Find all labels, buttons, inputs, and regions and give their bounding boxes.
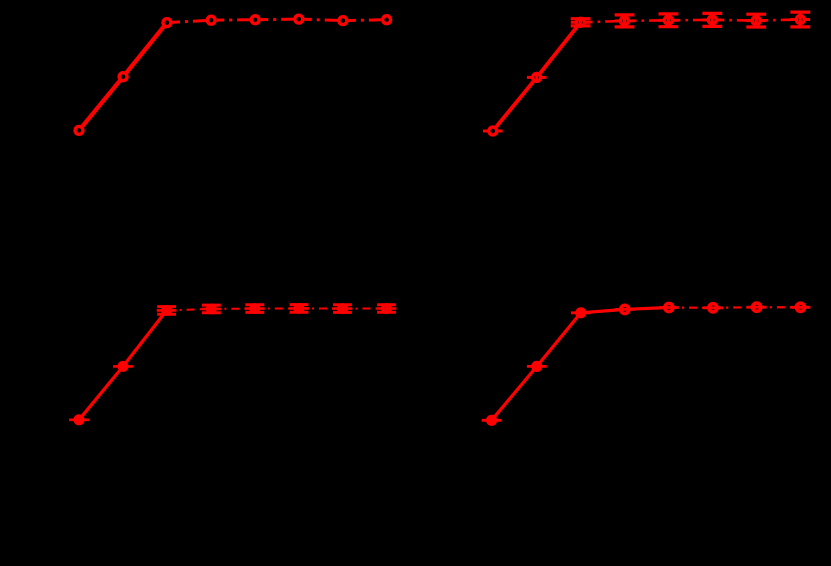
node BR-P2: filled circle marker	[531, 361, 542, 372]
TR-P6 x-error bar	[703, 18, 709, 21]
TR-P3 x-error bar	[571, 21, 577, 24]
wire: BR rising solid line P1-P5	[492, 308, 669, 421]
node BR-P6: open circle marker	[707, 302, 719, 314]
BR-P6 x-error bar	[703, 306, 723, 309]
top-right subplot: red series, open circles, x and y error bars with caps	[483, 12, 810, 137]
node TL-P6: open circle marker	[293, 14, 304, 25]
BL-P8 x-error bar	[377, 307, 397, 310]
bottom-right subplot: red series, x error bars only	[482, 301, 811, 425]
node TR-P4: open circle marker	[619, 15, 630, 26]
BL-P1 x-error bar	[69, 418, 89, 421]
node TR-P8: open circle marker	[795, 14, 806, 25]
BL-P7 x-error bar	[333, 307, 353, 310]
node BR-P1: filled circle marker	[486, 415, 497, 426]
BL-P6 x-error bar	[289, 307, 309, 310]
TR-P7 y-error bar with caps	[755, 14, 758, 27]
node TL-P4: open circle marker	[206, 15, 217, 26]
BR-P2 x-error bar	[527, 365, 547, 368]
node BL-P2: filled circle marker	[118, 361, 129, 372]
node TL-P8: open circle marker	[381, 14, 392, 25]
BL-P7 y-error bar with caps	[341, 305, 344, 313]
node BR-P8: open circle marker	[795, 302, 807, 314]
node BR-P3: filled circle marker	[575, 307, 586, 318]
node BL-P1: filled circle marker	[74, 414, 85, 425]
node TL-P1: open circle marker	[73, 125, 84, 136]
top-left subplot: red series, open circle markers, no error bars	[73, 14, 392, 137]
node BR-P4: open circle marker	[619, 304, 631, 316]
node TR-P1: open circle marker	[487, 125, 498, 136]
BL-P2 x-error bar	[113, 365, 133, 368]
node TL-P7: open circle marker	[337, 15, 348, 26]
BR-P5 x-error bar	[659, 306, 679, 309]
TR-P2 small y-error bar	[535, 73, 538, 81]
TR-P8 x-error bar	[791, 18, 797, 21]
node BR-P5: open circle marker	[663, 302, 675, 314]
BL-P4 x-error bar	[202, 308, 222, 311]
node TR-P3: open circle marker	[575, 17, 586, 28]
TR-P5 y-error bar with caps	[667, 14, 670, 27]
node BL-P8: open circle marker	[381, 303, 392, 314]
node BR-P7: open circle marker	[751, 301, 763, 313]
TR-P6 y-error bar with caps	[711, 13, 714, 26]
node BL-P3: open circle marker	[161, 305, 172, 316]
wire: TL rising solid line P1-P3	[79, 23, 167, 131]
BR-P8 x-error bar	[791, 306, 811, 309]
TR-P4 y-error bar with caps	[623, 15, 626, 27]
BR-P3 x-error bar	[571, 311, 591, 314]
node BL-P6: open circle marker	[294, 303, 305, 314]
bottom-left subplot: red series, small markers, x error bars and tight y caps	[69, 303, 396, 425]
BL-P5 x-error bar	[245, 307, 265, 310]
wire: TR dash-dot plateau line P3-P8	[581, 20, 801, 23]
TR-P1 x-error bar	[483, 130, 489, 133]
BL-P8 y-error bar with caps	[385, 305, 388, 313]
node BL-P7: open circle marker	[337, 303, 348, 314]
TR-P8 y-error bar with caps	[799, 12, 802, 27]
BR-P7 x-error bar	[747, 306, 767, 309]
node TR-P2: open circle marker	[531, 72, 542, 83]
BL-P3 x-error bar	[157, 309, 177, 312]
node BL-P5: open circle marker	[249, 303, 260, 314]
node TL-P5: open circle marker	[250, 14, 261, 25]
TR-P5 x-error bar	[659, 19, 665, 22]
TR-P4 x-error bar	[615, 19, 621, 22]
BL-P4 y-error bar with caps	[210, 305, 213, 313]
wire: BL dash-dot plateau line P3-P8	[167, 308, 387, 310]
node TR-P7: open circle marker	[751, 15, 762, 26]
BR-P4 x-error bar	[615, 308, 635, 311]
wire: TL dash-dot plateau line P3-P8	[167, 19, 387, 23]
node TR-P5: open circle marker	[663, 15, 674, 26]
TR-P3 y-error bar with caps	[579, 19, 582, 26]
wire: BR dash-dot plateau line P5-P8	[669, 306, 801, 309]
BL-P6 y-error bar with caps	[298, 305, 301, 313]
BR-P1 x-error bar	[482, 419, 502, 422]
BL-P3 y-error bar with caps	[165, 307, 168, 315]
BL-P5 y-error bar with caps	[253, 305, 256, 313]
wire: BL rising solid line P1-P3	[79, 310, 167, 419]
node BL-P4: open circle marker	[206, 304, 217, 315]
node TR-P6: open circle marker	[707, 14, 718, 25]
TR-P7 x-error bar	[746, 19, 752, 22]
wire: TR rising solid line P1-P3	[493, 22, 581, 131]
node TL-P2: open circle marker	[118, 71, 129, 82]
TR-P2 x-error bar	[527, 76, 533, 79]
node TL-P3: open circle marker	[161, 17, 172, 28]
